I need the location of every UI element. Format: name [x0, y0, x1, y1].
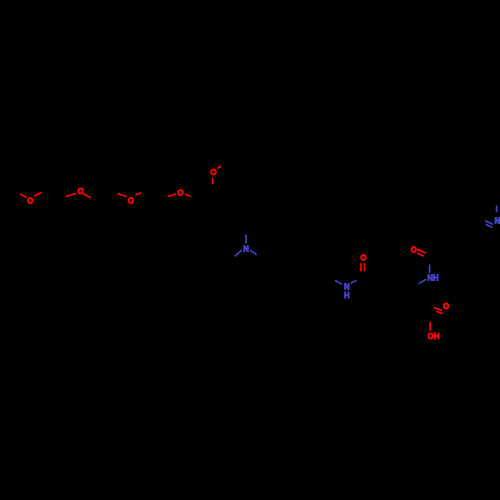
svg-text:O: O: [77, 187, 83, 196]
svg-text:OH: OH: [428, 332, 440, 341]
svg-text:O: O: [211, 168, 217, 177]
svg-text:O: O: [177, 188, 183, 197]
svg-text:O: O: [27, 196, 33, 205]
svg-text:H: H: [344, 291, 350, 300]
svg-text:O: O: [411, 245, 417, 254]
svg-text:N: N: [494, 216, 500, 225]
svg-text:O: O: [443, 302, 449, 311]
svg-text:O: O: [360, 254, 366, 263]
svg-text:NH: NH: [427, 273, 439, 282]
svg-text:N: N: [243, 245, 249, 254]
svg-text:O: O: [128, 196, 134, 205]
